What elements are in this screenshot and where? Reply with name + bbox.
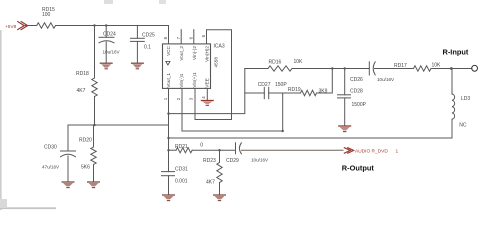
wire RD18 to bias node — [94, 97, 96, 126]
svg-text:0: 0 — [200, 142, 203, 148]
capacitor CD30 — [61, 150, 76, 152]
svg-text:R-Output: R-Output — [342, 163, 375, 172]
resistor RD19 — [301, 90, 317, 95]
resistor RD18 — [92, 78, 97, 97]
resistor RD15 — [37, 23, 56, 28]
wire bias to pin1 vertical — [95, 124, 169, 126]
ground CD24 — [100, 63, 113, 69]
wire CD31 branch — [168, 150, 170, 171]
wire pin7 stub — [180, 30, 182, 44]
svg-text:100: 100 — [42, 12, 51, 18]
wire CD28 drop — [344, 69, 346, 95]
resistor RD20 — [91, 147, 96, 165]
svg-text:RD18: RD18 — [76, 71, 89, 77]
node R-Input terminal — [472, 65, 478, 71]
ground CD31 — [162, 195, 175, 201]
wire top rail — [26, 25, 37, 27]
resistor RD17 — [414, 66, 432, 71]
capacitor CD27 — [263, 87, 265, 98]
wire RD20 branch — [93, 125, 95, 147]
resistor RD21 — [176, 148, 192, 153]
svg-text:5K6: 5K6 — [81, 164, 90, 170]
svg-text:Vout_2: Vout_2 — [179, 46, 184, 61]
wire to output port — [241, 149, 343, 151]
wire feedback row CD27 RD19 — [245, 92, 264, 94]
wire pin1 to output node — [169, 69, 245, 114]
svg-text:CD29: CD29 — [226, 158, 239, 164]
wire bottom rail — [169, 137, 453, 139]
ground CD30 — [62, 182, 75, 188]
wire RD23 branch — [219, 150, 221, 162]
ground CD28 — [338, 126, 351, 132]
svg-text:RD23: RD23 — [203, 158, 216, 164]
svg-text:CD27: CD27 — [258, 82, 271, 88]
resistor RD16 — [268, 66, 292, 71]
op-amp U ICA3 box — [163, 44, 211, 89]
svg-text:1500P: 1500P — [352, 102, 367, 108]
svg-text:AUDIO R_DVD: AUDIO R_DVD — [355, 149, 388, 155]
svg-text:RD17: RD17 — [394, 63, 407, 69]
resistor RD23 — [217, 162, 222, 182]
capacitor CD28 — [338, 94, 351, 96]
ground RD20 — [87, 182, 100, 188]
svg-text:VEE: VEE — [205, 78, 210, 87]
capacitor CD29 — [235, 143, 237, 154]
svg-text:10u/16V: 10u/16V — [103, 49, 121, 54]
wire RD21 row — [169, 149, 177, 151]
wire pin4 stub — [206, 88, 208, 99]
svg-text:10u/16V: 10u/16V — [251, 158, 269, 163]
svg-text:0.001: 0.001 — [175, 178, 188, 184]
inductor LD3 — [451, 69, 453, 95]
svg-text:CD26: CD26 — [350, 77, 363, 83]
svg-text:R-Input: R-Input — [443, 48, 469, 57]
svg-text:NC: NC — [459, 122, 467, 128]
capacitor CD25 — [136, 26, 138, 39]
svg-text:Vout_1: Vout_1 — [166, 73, 171, 88]
svg-text:10K: 10K — [432, 63, 442, 69]
svg-text:VCC: VCC — [166, 45, 171, 56]
svg-text:RD21: RD21 — [175, 144, 188, 150]
ground CD25 — [131, 63, 144, 69]
svg-text:Vin(-)1: Vin(-)1 — [179, 73, 184, 87]
wire pin5 — [207, 30, 232, 120]
svg-text:CD31: CD31 — [175, 167, 188, 173]
svg-text:RD20: RD20 — [79, 137, 92, 143]
wire pin3 to node — [195, 88, 232, 119]
capacitor CD26 — [368, 62, 370, 75]
svg-text:RD19: RD19 — [288, 87, 301, 93]
svg-text:CD25: CD25 — [142, 33, 155, 39]
capacitor CD31 — [162, 171, 175, 173]
node +5V8 port — [18, 22, 28, 30]
svg-text:4K7: 4K7 — [206, 180, 215, 186]
wire mid rail — [245, 68, 268, 70]
wire pin6 stub — [193, 30, 195, 44]
ground pin4 — [201, 101, 214, 106]
wire pin2 feedback — [182, 88, 283, 131]
svg-text:RD16: RD16 — [269, 60, 282, 66]
capacitor CD24 — [105, 26, 107, 38]
svg-text:Vin(H)2: Vin(H)2 — [205, 46, 210, 62]
wire pin1 vertical — [168, 88, 170, 150]
svg-text:CD28: CD28 — [350, 89, 363, 95]
svg-text:4558: 4558 — [214, 57, 219, 68]
svg-text:ICA3: ICA3 — [214, 44, 225, 50]
wire bias to CD30 — [68, 125, 95, 151]
svg-text:Vin(-)2: Vin(-)2 — [192, 46, 197, 60]
svg-text:47u/16V: 47u/16V — [42, 164, 60, 169]
svg-text:150P: 150P — [275, 82, 287, 88]
ground RD23 — [213, 195, 226, 201]
svg-text:+5V8: +5V8 — [5, 24, 17, 30]
svg-text:CD30: CD30 — [44, 144, 57, 150]
svg-text:Vin(+)1: Vin(+)1 — [192, 72, 197, 88]
svg-text:10u/16V: 10u/16V — [377, 77, 395, 82]
svg-text:1: 1 — [396, 149, 399, 155]
op-amp polarity mark — [166, 62, 170, 66]
svg-text:CD24: CD24 — [103, 32, 116, 38]
svg-text:4K7: 4K7 — [77, 88, 86, 94]
node AUDIO R_DVD port — [344, 147, 354, 153]
svg-text:LD3: LD3 — [461, 96, 470, 102]
wire RD18 branch — [94, 26, 96, 79]
svg-text:10K: 10K — [294, 59, 304, 65]
svg-text:3K9: 3K9 — [319, 88, 328, 94]
svg-text:0.1: 0.1 — [144, 45, 151, 51]
